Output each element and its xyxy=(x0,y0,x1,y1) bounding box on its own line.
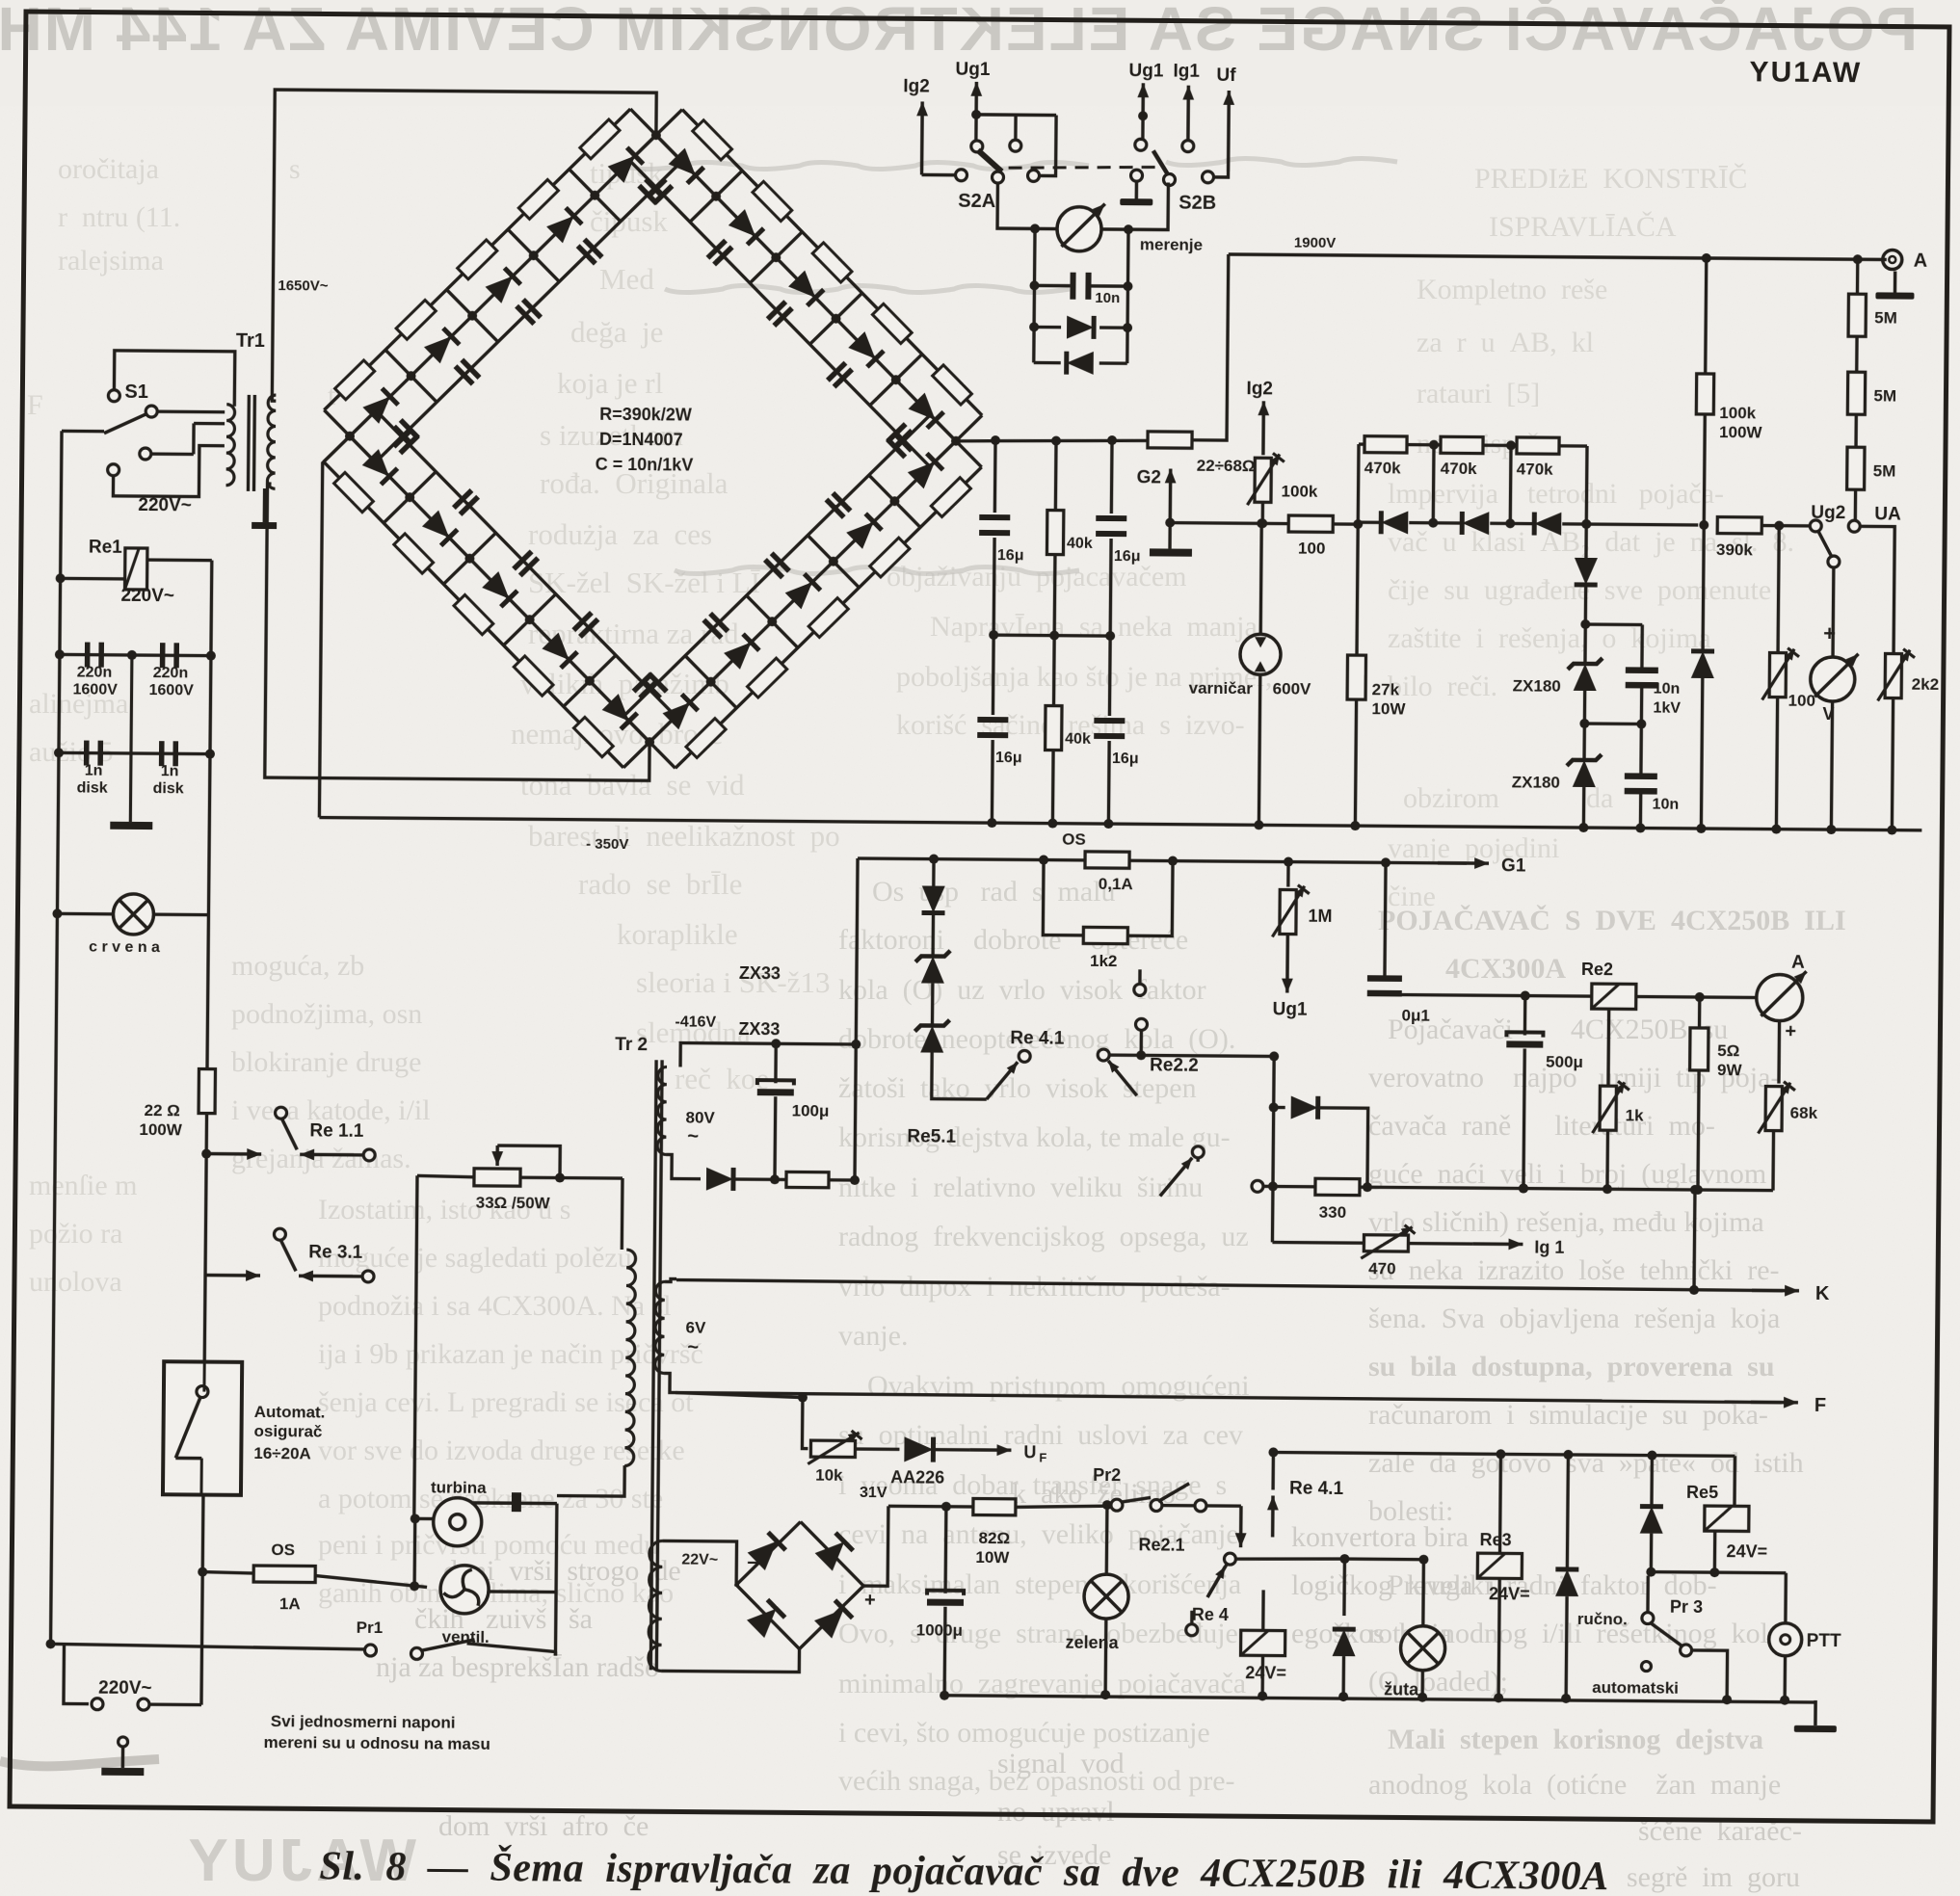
terminal S2A row d xyxy=(1027,170,1039,181)
filter rail 2 (40k) xyxy=(1054,441,1056,636)
wire: 6V top tap to K xyxy=(665,1278,676,1281)
svg-text:Med: Med xyxy=(599,262,654,296)
label F xyxy=(1814,1395,1826,1416)
ground (S2B row) xyxy=(1120,170,1152,205)
svg-text:ija i 9b prikazan je način pri: ija i 9b prikazan je način pričvršć xyxy=(318,1338,703,1370)
resistor 100k/100W rail xyxy=(1704,258,1707,525)
resistor 33ohm/50W xyxy=(474,1169,520,1186)
diode (ZX33 chain top) xyxy=(922,859,946,913)
capacitor 10n #2 xyxy=(1625,773,1657,794)
arrow UF xyxy=(969,1444,1011,1456)
capacitor 16u upper-right xyxy=(1096,515,1126,537)
svg-text:16μ: 16μ xyxy=(1114,548,1141,565)
svg-text:0,1A: 0,1A xyxy=(1099,875,1133,893)
svg-text:kola (O) uz vrlo visok fa: kola (O) uz vrlo visok faktor xyxy=(838,974,1206,1006)
svg-text:s: s xyxy=(289,153,301,185)
label automatski xyxy=(1592,1678,1679,1698)
label turbina xyxy=(431,1478,487,1496)
wire: zx33 seg xyxy=(931,913,935,957)
diode ladder #1 xyxy=(1381,511,1408,534)
svg-text:segrě im goru: segrě im goru xyxy=(1627,1861,1800,1893)
svg-text:V: V xyxy=(1822,704,1834,724)
label 100W xyxy=(139,1120,183,1139)
fuse OS 0,1A xyxy=(1085,852,1129,868)
svg-text:100: 100 xyxy=(1298,540,1326,558)
svg-text:Uf: Uf xyxy=(1216,66,1236,86)
label 6V xyxy=(685,1319,706,1358)
node: rail1 lamp xyxy=(52,908,62,918)
terminal PTT xyxy=(1769,1623,1802,1656)
switch Ug2 blade xyxy=(1817,530,1832,557)
label G1 xyxy=(1501,856,1526,876)
svg-text:žuta: žuta xyxy=(1384,1679,1419,1698)
bridge arm upper-right xyxy=(627,109,985,467)
label 100 xyxy=(1298,540,1326,558)
label 10W (82) xyxy=(975,1548,1010,1567)
svg-text:10k: 10k xyxy=(815,1466,843,1485)
label + (V meter) xyxy=(1823,621,1836,645)
potentiometer 100k (Ig2) xyxy=(1247,453,1284,505)
label 330 xyxy=(1319,1203,1347,1222)
wire Uf to S2B xyxy=(1215,171,1229,177)
svg-text:80V: 80V xyxy=(685,1109,715,1127)
arrow Ig1 xyxy=(1182,86,1194,141)
resistor 470k #3 xyxy=(1517,437,1559,454)
resistor 27k 10W xyxy=(1347,655,1365,699)
arrow G1 xyxy=(1438,857,1489,869)
wire: 10k to AA226 xyxy=(855,1447,899,1451)
ground (relay bus) xyxy=(1794,1700,1837,1732)
svg-text:NapravĪena sa neka manja: NapravĪena sa neka manja xyxy=(930,611,1258,643)
label 0u1 xyxy=(1402,1006,1430,1024)
label merenje xyxy=(1140,235,1203,254)
terminal S2B row right xyxy=(1202,171,1213,183)
diode (100k rail) xyxy=(1689,525,1715,829)
svg-text:1600V: 1600V xyxy=(72,681,118,698)
svg-text:1000μ: 1000μ xyxy=(916,1621,963,1640)
wire: lamp row xyxy=(57,913,208,914)
wire: A meter to 68k xyxy=(1777,1021,1781,1084)
capacitor 16u lower-left xyxy=(977,717,1008,738)
label YU1AW xyxy=(1749,56,1862,89)
svg-text:100μ: 100μ xyxy=(792,1101,830,1119)
terminal S2A row c xyxy=(992,171,1003,183)
svg-text:G2: G2 xyxy=(1137,467,1162,487)
bridge diode tr xyxy=(814,1533,853,1571)
label -416V xyxy=(675,1014,716,1030)
capacitor 100u xyxy=(757,1080,794,1095)
relay Re3 coil xyxy=(1476,1454,1523,1702)
svg-text:POJAČAVAČ S DVE 4CX250B IL: POJAČAVAČ S DVE 4CX250B ILI xyxy=(1378,905,1846,936)
svg-text:tona bavla se vid: tona bavla se vid xyxy=(520,768,745,802)
svg-text:ZX180: ZX180 xyxy=(1512,773,1560,791)
node 1900V a xyxy=(1702,253,1711,263)
svg-text:moguće je sagledati polězu: moguće je sagledati polězu xyxy=(318,1242,632,1274)
arrow K xyxy=(1752,1285,1799,1297)
wire: meter to S2B riser xyxy=(1100,182,1168,230)
filter rail 1 (16u) xyxy=(993,440,995,635)
svg-text:i maksimalan stepen iskoriš: i maksimalan stepen iskorišćenja xyxy=(838,1568,1241,1600)
wire: Re4.1 to rail xyxy=(1102,1055,1274,1056)
terminal UA xyxy=(1848,520,1860,532)
wire: blower/primary vertical xyxy=(555,1504,556,1656)
node fm xyxy=(989,630,1115,641)
svg-text:korisnog dejstva kola, te male: korisnog dejstva kola, te male gu- xyxy=(838,1121,1231,1153)
resistor 82ohm/10W xyxy=(973,1498,1016,1514)
svg-text:menſie m: menſie m xyxy=(29,1170,137,1201)
svg-text:Ig 1: Ig 1 xyxy=(1534,1238,1564,1257)
svg-text:OS: OS xyxy=(271,1540,295,1559)
svg-text:disk: disk xyxy=(77,779,108,796)
resistor 5ohm 9W xyxy=(1688,997,1708,1195)
svg-text:disk: disk xyxy=(153,780,184,797)
potentiometer 1k xyxy=(1592,1081,1629,1133)
label 390k xyxy=(1716,540,1754,559)
svg-text:1n: 1n xyxy=(161,763,179,779)
svg-text:AA226: AA226 xyxy=(890,1467,944,1487)
relay contact Re5.1 xyxy=(1160,1146,1273,1198)
wire: zener chain seg2 xyxy=(1579,691,1590,760)
svg-text:UA: UA xyxy=(1874,504,1901,524)
label disk right xyxy=(153,780,184,797)
wire: 22V bottom tap to bridge bottom xyxy=(661,1647,799,1672)
label Re4.1 (bottom) xyxy=(1289,1479,1344,1499)
wire: filter mid rung xyxy=(993,633,1110,637)
terminal Ug2 sw a xyxy=(1810,520,1821,532)
wire: left rail to S1 blade xyxy=(62,430,104,434)
node Y531 a xyxy=(1581,519,1708,530)
wire: 10n-1kV branch top xyxy=(1585,624,1642,668)
svg-text:ručno.: ručno. xyxy=(1577,1610,1628,1628)
svg-text:ZX33: ZX33 xyxy=(739,963,781,983)
wire: ladder stubs xyxy=(1428,445,1516,529)
svg-text:Re5.1: Re5.1 xyxy=(907,1126,956,1146)
wire: left rail 1 xyxy=(51,431,62,1644)
capacitor 10n/1kV xyxy=(1626,667,1658,688)
label Ig2 (pot) xyxy=(1246,379,1273,399)
svg-text:Ig1: Ig1 xyxy=(1173,62,1200,82)
label 82ohm xyxy=(979,1529,1011,1547)
label 0,1A xyxy=(1099,875,1133,893)
label varnicar xyxy=(1189,679,1254,698)
filter rail 3 (16u right) xyxy=(1110,440,1112,636)
wire: Pr2 out xyxy=(1206,1504,1241,1508)
svg-text:automatski: automatski xyxy=(1592,1678,1679,1698)
svg-text:barest li neelikažnost po: barest li neelikažnost po xyxy=(528,819,840,853)
label + (A meter) xyxy=(1785,1021,1796,1042)
svg-text:zelena: zelena xyxy=(1066,1633,1120,1652)
label ventil. xyxy=(442,1628,490,1646)
svg-text:9W: 9W xyxy=(1717,1061,1743,1079)
potentiometer 470 (Ig1) xyxy=(1361,1224,1415,1258)
wire: 470k row xyxy=(1358,444,1587,524)
label Re2.2 xyxy=(1150,1055,1199,1075)
wire: PTT to bus xyxy=(1780,1656,1789,1705)
svg-text:10W: 10W xyxy=(1371,699,1406,718)
label D=1N4007 xyxy=(599,430,683,450)
wire: 500u rail xyxy=(1519,995,1530,1193)
wire: 10n bottom xyxy=(1635,793,1645,832)
node 470k a xyxy=(1429,440,1516,451)
label K xyxy=(1815,1283,1830,1304)
zener rail top xyxy=(1581,519,1591,558)
transformer Tr1 secondary coil xyxy=(267,395,276,488)
wire: Y531 to 390k xyxy=(1586,522,1698,526)
label 16-20A xyxy=(253,1444,311,1462)
filter lower rail 1 xyxy=(992,635,993,823)
wire: 22V top tap to bridge left xyxy=(662,1540,739,1585)
svg-text:16μ: 16μ xyxy=(1112,750,1139,767)
label 470k 2 xyxy=(1441,460,1478,478)
svg-text:+: + xyxy=(864,1590,876,1611)
capacitor 16u lower-right xyxy=(1094,718,1125,739)
svg-text:S2A: S2A xyxy=(958,191,995,212)
Tr2 winding 6V xyxy=(655,1281,665,1373)
wire: 0u1 to Re2 row xyxy=(1385,994,1592,996)
svg-text:osigurač: osigurač xyxy=(253,1422,322,1441)
svg-text:ratauri [5]: ratauri [5] xyxy=(1417,378,1540,409)
arrow Ug1-2 xyxy=(1137,83,1149,116)
svg-text:16÷20A: 16÷20A xyxy=(253,1444,311,1462)
label G2 xyxy=(1137,467,1162,487)
label osigurac xyxy=(253,1422,322,1441)
filter lower rail 2 xyxy=(1052,636,1054,824)
label 500u xyxy=(1546,1053,1583,1071)
node: rail1 row1 xyxy=(55,649,65,659)
label Re1.1 xyxy=(309,1120,364,1141)
svg-text:anodnog kola (otićne žan: anodnog kola (otićne žan manje xyxy=(1368,1769,1781,1801)
label Ig2 (top) xyxy=(903,76,930,96)
label 10n (meter) xyxy=(1095,290,1120,306)
label 220V~ (primary) xyxy=(138,495,192,515)
label 68k xyxy=(1790,1104,1818,1122)
svg-text:blokiranje druge: blokiranje druge xyxy=(231,1046,421,1078)
svg-text:220V~: 220V~ xyxy=(138,495,192,515)
svg-text:c r v e n a: c r v e n a xyxy=(89,939,160,957)
node 1900V b xyxy=(1853,254,1863,264)
potentiometer 100 rail xyxy=(1771,526,1784,834)
zener ZX180 #2 xyxy=(1567,754,1602,787)
svg-text:Re3: Re3 xyxy=(1480,1530,1512,1549)
svg-text:konvertora bira: konvertora bira xyxy=(1291,1521,1469,1553)
label 5M 1 xyxy=(1874,308,1897,327)
diode (80V rect) xyxy=(706,1168,733,1191)
svg-text:bilo reči.: bilo reči. xyxy=(1388,671,1497,702)
breaker switch inside xyxy=(175,1385,208,1494)
capacitor 0u1 rail xyxy=(1385,862,1386,994)
label Re3.1 xyxy=(308,1242,363,1262)
wire Ug1-2 stem xyxy=(1138,111,1148,139)
blower turbina xyxy=(414,1491,557,1546)
wire: diode rung 1 xyxy=(1034,326,1127,329)
svg-text:faktoroni dobrote optere: faktoroni dobrote optereće xyxy=(838,924,1188,956)
diode ladder #3 xyxy=(1534,513,1561,536)
diode ladder #2 xyxy=(1462,512,1489,535)
relay Re2 coil xyxy=(1592,984,1636,1009)
switch Pr1 xyxy=(364,1639,555,1661)
wire: Tr1 secondary bottom to bridge bottom xyxy=(265,484,652,780)
svg-text:100k: 100k xyxy=(1281,482,1318,500)
bridge diode bl xyxy=(747,1599,785,1638)
svg-text:470k: 470k xyxy=(1364,459,1402,477)
svg-text:D=1N4007: D=1N4007 xyxy=(599,430,683,450)
label 16u ul xyxy=(997,547,1024,564)
svg-text:+: + xyxy=(1785,1021,1796,1042)
svg-text:su optimalni radni uslovi: su optimalni radni uslovi za cev xyxy=(838,1419,1243,1451)
label Automat. xyxy=(254,1403,326,1422)
label -350V xyxy=(586,836,628,853)
node bridge top vertex xyxy=(651,130,661,140)
svg-text:ISPRAVLĪAČA: ISPRAVLĪAČA xyxy=(1489,211,1677,243)
resistor 5M #3 xyxy=(1847,447,1865,489)
transformer Tr1 label xyxy=(236,330,265,352)
switch S1 blade xyxy=(104,406,157,434)
label Re5 xyxy=(1686,1483,1718,1502)
svg-text:24V=: 24V= xyxy=(1489,1584,1530,1603)
bus 31V line xyxy=(888,1501,1111,1513)
transformer Tr2 core xyxy=(650,1060,662,1670)
resistor 27k/10W rail xyxy=(1350,524,1363,830)
label 100u xyxy=(792,1101,830,1119)
svg-text:r ntru (11.: r ntru (11. xyxy=(58,201,180,233)
label 220V~ (bottom) xyxy=(98,1678,152,1698)
wire: PTT riser xyxy=(1784,1573,1788,1624)
fuse OS 1A xyxy=(253,1566,315,1583)
wire: Y1221 left rail xyxy=(1272,1056,1274,1242)
svg-text:Ig2: Ig2 xyxy=(903,76,930,96)
switch S2B blade xyxy=(1153,150,1168,173)
relay contact Re1.1 xyxy=(206,1107,376,1161)
transformer Tr1 core ground xyxy=(252,488,277,529)
capacitor C 1n disk left xyxy=(84,741,103,766)
node re41 xyxy=(1136,1050,1279,1061)
wire: rail2 below 22ohm xyxy=(204,1113,206,1362)
wire: turbina riser xyxy=(410,1514,420,1586)
wire: rail2 below breaker xyxy=(201,1495,203,1705)
bus F line xyxy=(675,1392,1782,1402)
terminal S2A pole b xyxy=(1010,140,1021,151)
node 100k rail xyxy=(1696,824,1706,833)
svg-text:0μ1: 0μ1 xyxy=(1402,1006,1430,1024)
svg-text:moguća, zb: moguća, zb xyxy=(231,950,364,982)
wire: S2A to meter rung xyxy=(997,183,1058,229)
svg-text:10n: 10n xyxy=(1095,290,1120,306)
label OS (bottom) xyxy=(271,1540,295,1559)
svg-text:5Ω: 5Ω xyxy=(1717,1041,1739,1060)
wire: pot bottom xyxy=(1258,501,1267,528)
svg-text:33Ω /50W: 33Ω /50W xyxy=(476,1194,551,1213)
wire: Re2 to A meter xyxy=(1636,991,1758,1002)
svg-text:šena. Sva objavljena rešenj: šena. Sva objavljena rešenja koja xyxy=(1368,1303,1780,1334)
lamp zuta xyxy=(1400,1626,1444,1671)
svg-text:merenje: merenje xyxy=(1140,235,1203,254)
label 16u ur xyxy=(1114,548,1141,565)
label Re4 xyxy=(1192,1605,1229,1624)
wire: 80V bottom tap xyxy=(666,1154,701,1178)
svg-text:100W: 100W xyxy=(1719,423,1763,441)
meter A (anode) xyxy=(1757,971,1807,1021)
wire: OS rail down xyxy=(850,1040,861,1180)
svg-text:Kompletno reše: Kompletno reše xyxy=(1417,274,1607,305)
svg-text:Ovo, s druge strane, obezb: Ovo, s druge strane, obezbeđuje xyxy=(838,1618,1238,1649)
svg-text:470: 470 xyxy=(1368,1259,1396,1277)
node: rail2 at fuse line xyxy=(198,1567,207,1577)
svg-text:Ig2: Ig2 xyxy=(1246,379,1273,399)
wire: meter loop left rail xyxy=(1034,228,1035,362)
label 100k (Ig2) xyxy=(1281,482,1318,500)
switch S2A blade xyxy=(978,150,1002,171)
svg-text:šenja cevi. L pregradi se isec: šenja cevi. L pregradi se iseca ot xyxy=(318,1386,694,1418)
resistor 390k xyxy=(1717,517,1761,534)
node rt xyxy=(1268,1447,1656,1460)
wire: 1000u rail xyxy=(940,1507,951,1700)
diode (meter, left) xyxy=(1067,352,1094,375)
bridge arm lower-left xyxy=(321,410,678,769)
label 470k 3 xyxy=(1517,460,1554,478)
svg-text:22V~: 22V~ xyxy=(681,1552,718,1568)
label Ug1 (top2) xyxy=(1128,61,1164,81)
label 1k2 xyxy=(1090,952,1118,970)
relay contact Re4.1 arrow up xyxy=(1267,1452,1280,1537)
svg-text:Ug1: Ug1 xyxy=(955,60,991,80)
svg-text:24V=: 24V= xyxy=(1726,1541,1767,1561)
diode (zener chain top) xyxy=(1575,558,1598,585)
label 1650V~ xyxy=(278,277,329,294)
svg-text:oročitaja: oročitaja xyxy=(58,153,159,185)
bridge arm lower-right xyxy=(623,412,982,771)
wire: zener chain bottom xyxy=(1578,787,1588,832)
svg-text:22÷68Ω: 22÷68Ω xyxy=(1197,457,1256,475)
wire: OS-1A fuse line xyxy=(202,1572,556,1593)
svg-text:su neka izrazito loše tehn: su neka izrazito loše tehnički re- xyxy=(1368,1254,1780,1286)
wire: riser to 470k row xyxy=(1357,444,1361,524)
svg-text:1600V: 1600V xyxy=(148,682,194,698)
svg-text:Pojačavači 4CX250B su: Pojačavači 4CX250B su xyxy=(1388,1014,1728,1045)
transformer Tr1 primary coil xyxy=(226,405,235,486)
svg-text:500μ: 500μ xyxy=(1546,1053,1583,1071)
svg-text:~: ~ xyxy=(687,1337,699,1358)
wire: capacitor row 2 xyxy=(59,752,210,753)
relay Re5 coil xyxy=(1704,1506,1749,1577)
svg-text:40k: 40k xyxy=(1065,731,1091,748)
bus -350V xyxy=(319,817,1921,829)
wire: Ug1 node bar xyxy=(971,110,1057,176)
note: mereni su u odnosu na masu xyxy=(264,1733,490,1753)
svg-text:Svi jednosmerni naponi: Svi jednosmerni naponi xyxy=(271,1712,456,1732)
label 1M xyxy=(1308,907,1332,926)
arrow Uf xyxy=(1223,91,1235,171)
label Ug1 (1M) xyxy=(1273,999,1309,1019)
svg-text:5M: 5M xyxy=(1873,386,1896,405)
varistor rail xyxy=(1254,518,1266,829)
wire: Re5.1 arrow feed xyxy=(0,0,1,1)
potentiometer 1M xyxy=(1272,884,1309,936)
svg-text:dom vrši afro če: dom vrši afro če xyxy=(438,1810,649,1842)
resistor 22ohm/100W xyxy=(199,1069,215,1114)
svg-text:Pr2: Pr2 xyxy=(1093,1465,1121,1485)
wire: 1k2 loop xyxy=(1043,860,1173,936)
relay Re4 coil xyxy=(1240,1590,1285,1700)
bridge rectifier (24V) outline xyxy=(736,1521,864,1649)
label C=10n/1kV xyxy=(596,455,694,475)
label 24V= (Re5) xyxy=(1726,1541,1767,1561)
wire: Re2.1 row xyxy=(1235,1553,1428,1565)
svg-text:i cevi, što omogućuje postizan: i cevi, što omogućuje postizanje xyxy=(838,1717,1210,1749)
svg-text:F: F xyxy=(27,389,43,421)
svg-text:Ug2: Ug2 xyxy=(1811,503,1845,523)
bridge diode br xyxy=(814,1600,853,1639)
wire: to OS rail xyxy=(829,1175,860,1185)
